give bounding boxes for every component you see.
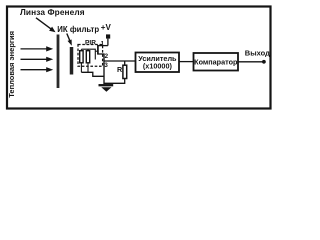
leader arrow to IR filter xyxy=(67,34,72,46)
label: Линза Френеля xyxy=(20,7,85,17)
wire: elements top rail to gate xyxy=(81,49,98,59)
svg-text:Компаратор: Компаратор xyxy=(194,57,238,66)
wire: R top tick xyxy=(124,61,126,65)
svg-text:(х10000): (х10000) xyxy=(143,62,173,71)
wire: amplifier to comparator xyxy=(179,61,194,63)
label: ИК фильтр xyxy=(57,25,99,34)
+V terminal (filled square) xyxy=(106,34,110,38)
label: R xyxy=(117,65,123,74)
label: +V xyxy=(101,23,112,32)
pyro element E1 xyxy=(80,49,83,72)
wire: source down to output node xyxy=(98,54,104,84)
svg-text:Линза Френеля: Линза Френеля xyxy=(20,7,85,17)
pin 1 xyxy=(101,40,105,47)
output terminal dot xyxy=(262,60,266,64)
transistor Q1 (JFET channel) xyxy=(97,45,99,55)
IR filter bar xyxy=(70,47,74,75)
comparator block xyxy=(194,53,239,71)
heat arrow 1 xyxy=(21,46,54,51)
wire: +V square down to drain xyxy=(107,39,109,46)
svg-text:2: 2 xyxy=(105,53,109,60)
wire: drain to +V xyxy=(98,45,108,47)
wire: comparator to output xyxy=(238,61,263,63)
wire: elements bottom rail to ground xyxy=(81,72,104,76)
border frame xyxy=(7,7,271,109)
wire: output to amplifier xyxy=(104,60,136,62)
svg-text:1: 1 xyxy=(101,40,105,47)
leader arrow to lens xyxy=(36,18,56,32)
heat arrow 3 xyxy=(21,67,54,72)
pyro element E2 xyxy=(86,49,89,72)
label: Тепловая энергия (vertical) xyxy=(7,31,16,98)
wire: R bottom rail to ground node xyxy=(104,79,125,84)
svg-text:Выход: Выход xyxy=(245,48,270,57)
ground xyxy=(99,85,114,92)
svg-text:Тепловая энергия: Тепловая энергия xyxy=(7,31,16,98)
amplifier block xyxy=(136,53,180,73)
svg-text:3: 3 xyxy=(104,62,108,69)
label: Выход xyxy=(245,48,270,57)
svg-text:PIR: PIR xyxy=(85,40,96,47)
PIR sensor package (dashed box) xyxy=(78,45,103,67)
heat arrow 2 xyxy=(21,57,54,62)
svg-text:R: R xyxy=(117,65,123,74)
svg-text:ИК фильтр: ИК фильтр xyxy=(57,25,99,34)
pin 2 xyxy=(105,53,109,60)
resistor R xyxy=(123,65,127,78)
label: PIR xyxy=(85,40,96,47)
svg-text:+V: +V xyxy=(101,23,112,32)
lens (Fresnel lens bar) xyxy=(57,35,60,89)
pin 3 xyxy=(104,62,108,69)
